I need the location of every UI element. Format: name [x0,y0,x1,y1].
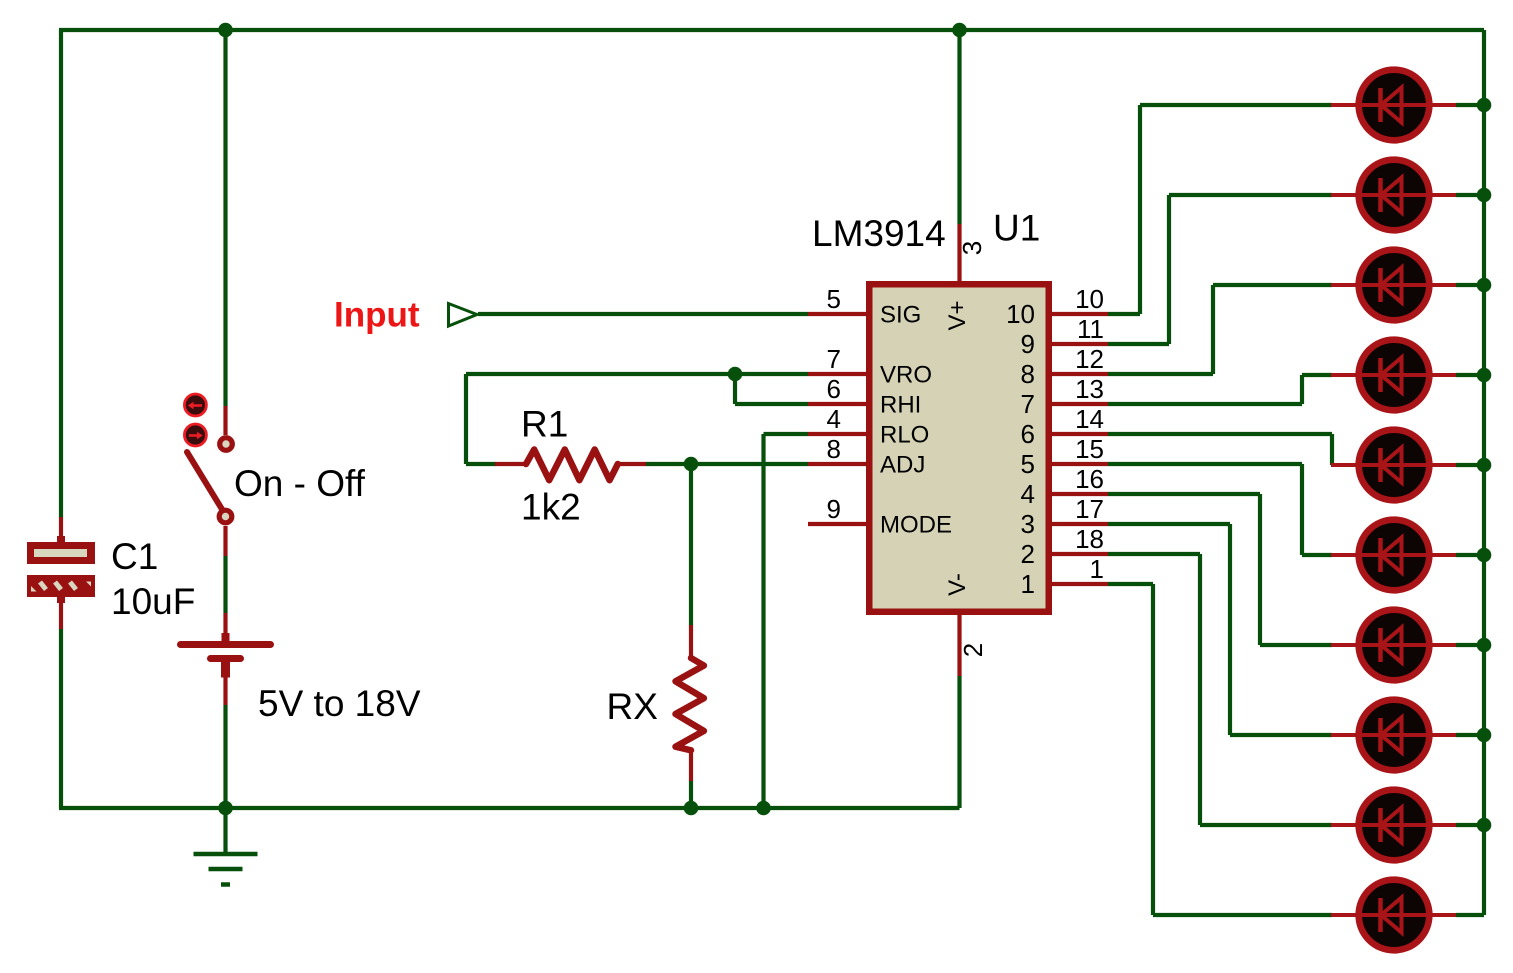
capacitor C1 top plate [27,542,95,564]
junction ADJ / R1 / RX node [684,457,699,472]
U1 pin 7 VRO stub [808,372,866,376]
wire right LED anode rail [1482,30,1486,915]
svg-text:1: 1 [1021,569,1035,599]
switch SW1 bottom contact [219,510,232,523]
wire RHI horizontal to pin 6 [735,402,808,406]
svg-text:On - Off: On - Off [234,463,366,504]
wire pin4 to LED D7 [1108,492,1260,496]
wire LED D2 to right rail [1456,193,1484,197]
wire VRO corner vertical to R1 [464,374,468,464]
wire pin7 to LED D4 [1108,402,1302,406]
U1 right pin stub row 7 [1052,492,1108,496]
svg-text:C1: C1 [111,536,158,577]
wire top power rail [59,28,1484,32]
U1 right pin stub row 10 [1052,582,1108,586]
wire ground stem [223,808,227,855]
junction LED D2 rail [1477,188,1492,203]
svg-text:9: 9 [1021,329,1035,359]
wire pin1 to LED D10 [1108,582,1153,586]
svg-text:11: 11 [1077,314,1104,344]
switch SW1 lever (open) [187,452,226,515]
svg-text:R1: R1 [521,404,568,445]
wire LED D9 to right rail [1456,823,1484,827]
LED D2 [1331,160,1456,231]
svg-text:4: 4 [827,404,841,434]
wire LED D6 to right rail [1456,553,1484,557]
svg-text:Input: Input [334,296,420,335]
LED D7 [1331,610,1456,681]
svg-text:2: 2 [1021,539,1035,569]
wire switch to battery [223,556,227,613]
U1 right pin stub row 3 [1052,372,1108,376]
resistor RX bottom pin [689,750,693,781]
capacitor C1 bottom plate (polarized) [27,575,95,597]
junction top (V+ branch) [952,23,967,38]
U1 pin 9 MODE stub [808,522,866,526]
wire pin6 to LED D5 [1108,432,1332,436]
svg-text:RHI: RHI [880,392,921,419]
LED D3 [1331,250,1456,321]
svg-text:6: 6 [1021,419,1035,449]
wire R1 right to ADJ pin 8 [645,462,808,466]
junction LED D3 rail [1477,278,1492,293]
svg-text:6: 6 [827,374,841,404]
svg-text:10: 10 [1006,299,1035,329]
U1 right pin stub row 5 [1052,432,1108,436]
battery BT1 negative plate [211,655,241,662]
svg-text:VRO: VRO [880,362,932,389]
battery BT1 bottom terminal [221,659,230,678]
junction LED D7 rail [1477,638,1492,653]
wire input to SIG pin 5 [478,312,808,316]
U1 right pin stub row 1 [1052,312,1108,316]
svg-text:2: 2 [958,643,988,657]
wire VRO pin 7 horizontal [466,372,808,376]
resistor R1 left pin [495,462,527,466]
LED D10 [1331,880,1456,951]
wire node A to RX top [689,464,693,625]
junction LED D6 rail [1477,548,1492,563]
ground symbol [194,852,258,857]
svg-text:ADJ: ADJ [880,452,925,479]
wire LED D5 to right rail [1456,463,1484,467]
junction VRO node [728,367,743,382]
junction top-left (switch branch) [218,23,233,38]
svg-text:8: 8 [1021,359,1035,389]
U1 pin 5 SIG stub [808,312,866,316]
LED D1 [1331,70,1456,141]
svg-text:7: 7 [1021,389,1035,419]
capacitor C1 top pin [59,517,63,542]
wire V+ pin 3 from top rail [957,30,961,224]
switch SW1 bottom pin [223,526,227,556]
svg-text:RLO: RLO [880,422,929,449]
svg-text:13: 13 [1075,374,1104,404]
wire pin3 to LED D8 [1108,522,1230,526]
capacitor C1 bottom pin [57,597,65,603]
wire pin10 to LED D1 [1108,312,1140,316]
LED D8 [1331,700,1456,771]
wire pin8 to LED D3 [1108,372,1213,376]
svg-text:10uF: 10uF [111,581,195,622]
wire RLO horizontal to pin 4 [764,432,809,436]
svg-text:5: 5 [827,284,841,314]
U1 pin 4 RLO stub [808,432,866,436]
LED D9 [1331,790,1456,861]
svg-text:5: 5 [1021,449,1035,479]
svg-text:15: 15 [1075,434,1104,464]
svg-text:12: 12 [1075,344,1104,374]
LED D5 [1331,430,1456,501]
U1 pin 3 V+ stub [957,224,961,281]
wire LED D8 to right rail [1456,733,1484,737]
junction LED D5 rail [1477,458,1492,473]
wire LED D4 to right rail [1456,373,1484,377]
wire LED D7 to right rail [1456,643,1484,647]
svg-text:SIG: SIG [880,302,921,329]
svg-text:1k2: 1k2 [521,487,581,528]
junction RX ground [684,801,699,816]
svg-text:10: 10 [1075,284,1104,314]
wire to R1 left [466,462,496,466]
junction RLO ground [756,801,771,816]
svg-text:LM3914: LM3914 [812,213,946,254]
svg-text:3: 3 [1021,509,1035,539]
U1 right pin stub row 2 [1052,342,1108,346]
svg-text:9: 9 [827,494,841,524]
svg-text:5V to 18V: 5V to 18V [258,683,421,724]
svg-text:U1: U1 [993,208,1040,249]
wire RHI vertical from VRO node [733,374,737,404]
resistor R1 body [526,450,618,481]
wire switch branch from top rail [223,30,227,406]
LED D4 [1331,340,1456,411]
LED D6 [1331,520,1456,591]
wire LED D1 to right rail [1456,103,1484,107]
svg-text:1: 1 [1090,554,1104,584]
wire pin2 to LED D9 [1108,552,1200,556]
U1 right pin stub row 6 [1052,462,1108,466]
U1 right pin stub row 9 [1052,552,1108,556]
junction battery ground [218,801,233,816]
switch SW1 actuator button down [184,424,206,446]
svg-text:8: 8 [827,434,841,464]
switch SW1 top contact [220,438,233,451]
op-amp U1 LM3914 body [869,284,1049,612]
resistor RX top pin [689,625,693,658]
U1 pin 2 V- stub [957,615,961,676]
battery BT1 top pin [223,613,227,641]
battery BT1 positive plate [181,641,271,648]
input terminal arrow [449,304,478,327]
wire RLO vertical to ground rail [761,434,765,808]
svg-text:3: 3 [957,241,987,255]
resistor R1 right pin [618,462,646,466]
svg-text:MODE: MODE [880,512,952,539]
svg-text:16: 16 [1075,464,1104,494]
wire LED D3 to right rail [1456,283,1484,287]
svg-text:V-: V- [944,573,971,596]
wire LED D10 to right rail [1456,913,1484,917]
wire V- pin 2 to ground rail [957,676,961,808]
svg-text:V+: V+ [944,300,971,330]
U1 pin 8 ADJ stub [808,462,866,466]
svg-text:17: 17 [1075,494,1104,524]
U1 right pin stub row 4 [1052,402,1108,406]
svg-text:18: 18 [1075,524,1104,554]
junction LED D1 rail [1477,98,1492,113]
wire battery to ground rail [223,705,227,808]
wire bottom ground rail [59,806,960,810]
wire RX bottom to ground rail [689,781,693,808]
junction LED D4 rail [1477,368,1492,383]
switch SW1 top pin [223,406,227,435]
resistor RX body [676,658,704,750]
battery BT1 bottom pin [223,677,227,705]
svg-text:RX: RX [607,686,658,727]
junction LED D9 rail [1477,818,1492,833]
wire left rail lower segment [59,629,63,808]
wire pin5 to LED D6 [1108,462,1302,466]
svg-text:7: 7 [827,344,841,374]
wire left rail upper segment [59,30,63,517]
U1 pin 6 RHI stub [808,402,866,406]
svg-text:14: 14 [1075,404,1104,434]
switch SW1 actuator button up [184,394,206,416]
U1 right pin stub row 8 [1052,522,1108,526]
svg-text:4: 4 [1021,479,1035,509]
junction LED D8 rail [1477,728,1492,743]
wire pin9 to LED D2 [1108,342,1169,346]
